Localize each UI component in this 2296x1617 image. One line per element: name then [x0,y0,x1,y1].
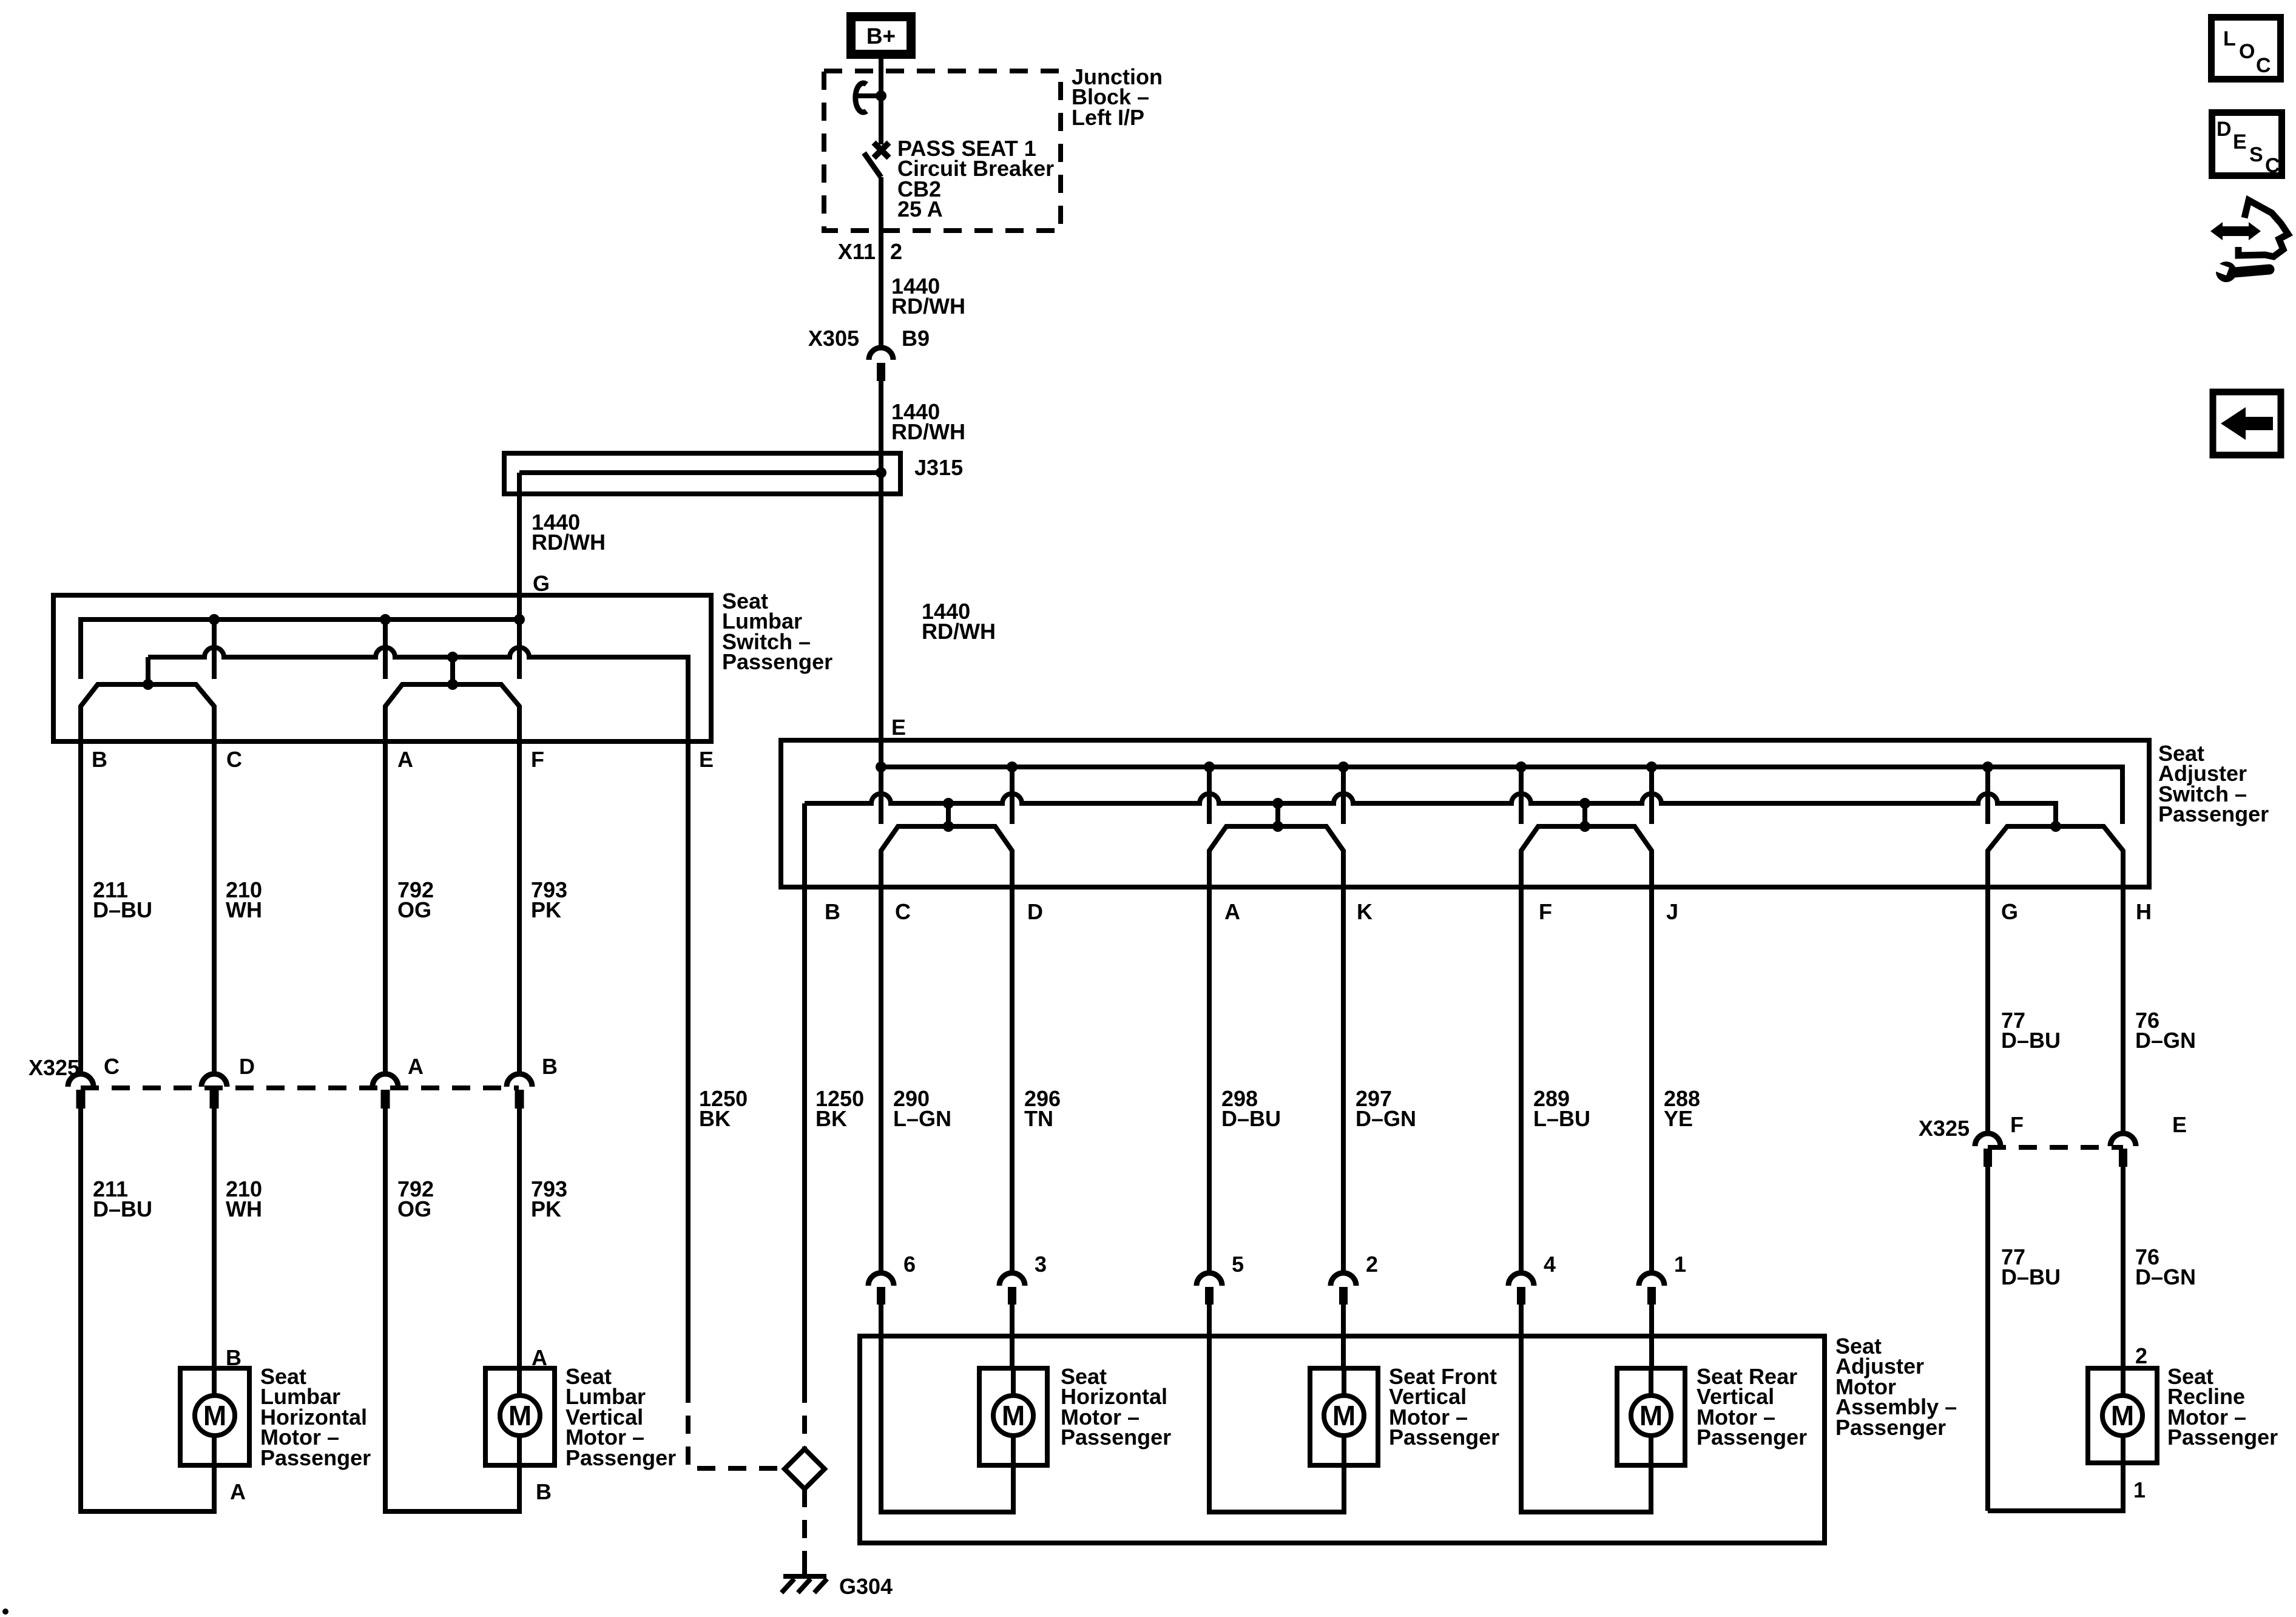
battery feed B+ terminal [851,17,911,55]
svg-text:WH: WH [226,897,262,922]
connector pin 1 male [1647,1287,1656,1305]
lumbar bridge 2 tap [450,657,455,684]
lumbar feed stub to G wire [517,598,522,679]
breaker switch blade [864,153,881,177]
recline motor M circle [2102,1396,2142,1436]
wire pin 3 into motor assembly [1010,1305,1015,1370]
svg-text:A: A [1224,899,1240,924]
svg-text:M: M [1002,1400,1025,1431]
wire lumbar horizontal motor loop [81,1465,214,1511]
svg-text:25 A: 25 A [897,197,943,221]
wire seat horizontal motor loop [881,1370,1013,1512]
wire pin 4 into motor assembly [1519,1305,1524,1370]
svg-text:Passenger: Passenger [2158,802,2269,826]
connector X325 pin B female [507,1074,532,1087]
svg-text:S: S [2249,143,2263,166]
wire J315 to seat lumbar switch pin G (1440 RD/WH) [517,473,522,598]
svg-text:Passenger: Passenger [1697,1425,1807,1450]
connector pin 4 female [1508,1273,1534,1286]
adjuster switch bridge C-D [881,826,1012,858]
svg-text:E: E [2172,1112,2187,1137]
svg-text:YE: YE [1664,1106,1693,1131]
junction dot common/bridge3 tap [1579,798,1590,809]
svg-text:OG: OG [397,897,431,922]
svg-text:2: 2 [1366,1252,1378,1277]
svg-text:B+: B+ [866,24,896,49]
svg-text:L–BU: L–BU [1533,1106,1590,1131]
wire X305 to splice J315 (1440 RD/WH) [879,380,883,743]
splice pack J315 bus [519,470,885,475]
svg-text:G304: G304 [839,1574,893,1599]
wire through recline motor [2121,1368,2125,1463]
wire adjuster B ground (1250 BK) [802,803,807,1385]
svg-text:B9: B9 [902,326,930,351]
wire adjuster J to motor assembly pin 1 (288 YE) [1649,851,1654,1273]
svg-text:L–GN: L–GN [893,1106,951,1131]
seat front vertical motor outline [1310,1368,1378,1465]
wire lumbar B to X325 C (211 D-BU) [78,706,83,1075]
svg-text:RD/WH: RD/WH [922,619,996,644]
connector X325 pin A female [373,1074,398,1087]
svg-text:BK: BK [815,1106,847,1131]
svg-text:B: B [536,1479,552,1504]
svg-text:F: F [531,747,544,772]
wire seat front vertical motor loop [1209,1370,1344,1512]
circuit breaker CB2 hook [856,83,866,112]
lumbar contact stub A [383,619,388,679]
ground symbol G304 [783,1574,826,1579]
svg-text:D–BU: D–BU [1221,1106,1281,1131]
connector X325 pin B male [515,1090,524,1109]
svg-text:M: M [203,1400,226,1431]
wire adjuster H to X325 E (76 D-GN) [2121,851,2125,1135]
junction dot bridge2 tap bottom [1272,821,1283,832]
connector pin 5 female [1197,1273,1222,1286]
LOC navigation box [2212,18,2281,79]
wire pin 2 into motor assembly [1341,1305,1346,1370]
svg-text:X11: X11 [838,239,876,264]
svg-text:B: B [542,1054,558,1079]
junction dot feed/A stub [380,614,391,625]
connector X325 pin F female [1975,1133,2001,1146]
DESC navigation box [2212,113,2282,176]
svg-text:D–BU: D–BU [93,1197,152,1221]
svg-text:TN: TN [1024,1106,1053,1131]
lumbar common bus with hops to pin E [148,647,688,743]
seat horizontal motor outline [979,1368,1047,1465]
svg-text:C: C [895,899,911,924]
svg-text:J315: J315 [914,455,963,480]
svg-text:A: A [408,1054,424,1079]
wire through seat horizontal motor [1011,1368,1016,1465]
connector X325 dashed line (left row) [81,1085,519,1090]
seat adjuster switch outline [781,740,2149,887]
connector X325 pin E female [2110,1133,2136,1146]
svg-text:C: C [2256,54,2271,77]
wire adjuster C to motor assembly pin 6 (290 L–GN) [879,851,883,1273]
wire X325 C to lumbar horizontal motor A [78,1109,83,1514]
junction dot at breaker arm [876,90,886,101]
connector pin 6 male [877,1287,885,1305]
lumbar switch bridge A-F [385,684,519,714]
adjuster switch bridge F-J [1521,826,1652,858]
svg-text:D–GN: D–GN [1356,1106,1416,1131]
svg-text:Passenger: Passenger [1835,1415,1946,1440]
adjuster bridge1 tap [946,803,951,826]
svg-text:M: M [2111,1400,2134,1431]
wire lumbar A to X325 A (792 OG) [383,706,388,1075]
wire lumbar ground dashed to splice [688,1385,785,1468]
wire adjuster D to motor assembly pin 3 (296 TN) [1010,851,1015,1273]
svg-text:A: A [230,1479,246,1504]
junction dot feed/J stub [1646,761,1657,772]
svg-text:Passenger: Passenger [566,1445,676,1470]
svg-text:Passenger: Passenger [260,1445,371,1470]
svg-text:Passenger: Passenger [1389,1425,1499,1450]
svg-text:G: G [533,571,550,596]
svg-text:RD/WH: RD/WH [532,530,606,555]
motor M2 circle [500,1396,540,1436]
seat lumbar vertical motor outline [485,1368,555,1465]
dashed wire splice to ground G304 [802,1489,807,1565]
wire pin 5 into motor assembly [1207,1305,1212,1370]
svg-text:B: B [825,899,840,924]
junction dot feed/C stub [209,614,220,625]
junction dot feed/A stub [1204,761,1215,772]
connector X325 pin A male [381,1090,390,1109]
seat lumbar switch outline [53,595,711,741]
connector pin 4 male [1517,1287,1525,1305]
wire lumbar vertical motor loop [385,1465,519,1511]
svg-text:M: M [1639,1400,1663,1431]
junction dot feed/G stub [1982,761,1993,772]
wire through seat front vertical motor [1342,1368,1346,1465]
svg-text:1: 1 [1674,1252,1686,1277]
svg-text:B: B [92,747,107,772]
seat adjuster motor assembly outline [860,1336,1825,1543]
wire CB2 to X305 (1440 RD/WH) [879,177,883,347]
svg-text:2: 2 [890,239,902,264]
wire X325 B to lumbar vertical motor A [517,1109,522,1368]
wire adjuster K to motor assembly pin 2 (297 D–GN) [1341,851,1346,1273]
svg-text:M: M [1332,1400,1356,1431]
svg-text:WH: WH [226,1197,262,1221]
adjuster contact stub J [1649,767,1654,824]
svg-text:1: 1 [2133,1477,2146,1502]
wire X325 F to recline motor 1 (77 D-BU) [1985,1167,1990,1511]
seat front vertical motor M circle [1324,1396,1364,1436]
wire pin 6 into motor assembly [879,1305,883,1370]
breaker contact X mark [874,143,889,158]
seat lumbar horizontal motor outline [180,1368,249,1465]
adjuster bridge3 tap [1582,803,1587,826]
lumbar bridge 1 tap [146,657,150,684]
svg-text:J: J [1666,899,1678,924]
svg-text:RD/WH: RD/WH [891,294,965,319]
connector pin 1 female [1639,1273,1664,1286]
junction dot common/bridge2 tap [1272,798,1283,809]
junction dot common bus at bridge2 tap [447,652,458,663]
wire seat rear vertical motor loop [1521,1370,1651,1512]
connector X325 pin F male [1984,1149,1992,1167]
junction dot bridge2 tap [447,679,458,690]
svg-text:C: C [2265,154,2280,177]
svg-text:D–GN: D–GN [2135,1028,2196,1053]
svg-text:E: E [699,747,714,772]
junction dot bridge1 tap [143,679,154,690]
wire lumbar F to X325 B (793 PK) [517,706,522,1075]
wire lumbar E ground (1250 BK) [686,657,690,1385]
svg-text:X305: X305 [808,326,859,351]
adjustable component icon (arrow/wrench) [2210,200,2288,282]
svg-text:F: F [1539,899,1552,924]
svg-text:5: 5 [1232,1252,1244,1277]
seat rear vertical motor M circle [1631,1396,1671,1436]
seat horizontal motor M circle [993,1396,1033,1436]
lumbar switch bridge B-C [81,684,214,714]
connector pin 2 female [1331,1273,1356,1286]
wire X325 D to lumbar horizontal motor B [212,1109,217,1368]
adjuster feed bus (from pin E) [881,767,2122,824]
junction dot feed/D stub [1007,761,1018,772]
svg-text:D: D [2217,118,2232,141]
wire adjuster A to motor assembly pin 5 (298 D–BU) [1207,851,1212,1273]
adjuster switch bridge G-H [1988,826,2123,858]
svg-text:D: D [239,1054,255,1079]
svg-text:PK: PK [531,1197,561,1221]
junction dot J315 bus to main feed [876,467,886,478]
splice pack J315 outline [504,453,900,494]
svg-text:A: A [397,747,413,772]
adjuster contact stub F [1519,767,1524,824]
svg-text:E: E [891,715,906,740]
wire pin 1 into motor assembly [1649,1305,1654,1370]
svg-text:Passenger: Passenger [2167,1425,2278,1450]
wire breaker arm to contact [879,96,883,144]
svg-text:D–BU: D–BU [93,897,152,922]
junction dot feed/F stub [1516,761,1527,772]
connector X325 pin D female [201,1074,227,1087]
svg-text:OG: OG [397,1197,431,1221]
connector X325 pin E male [2119,1149,2127,1167]
svg-text:D–BU: D–BU [2001,1264,2061,1289]
wire from B+ into junction block [879,55,883,96]
junction dot feed/G entry [514,614,525,625]
svg-text:C: C [226,747,242,772]
junction block (dashed outline) [824,71,1061,231]
junction dot feed/K stub [1338,761,1349,772]
svg-text:BK: BK [699,1106,731,1131]
svg-text:PK: PK [531,897,561,922]
junction dot bridge3 tap bottom [1579,821,1590,832]
svg-text:Passenger: Passenger [722,649,832,674]
svg-text:3: 3 [1035,1252,1047,1277]
adjuster contact stub D [1010,767,1015,824]
svg-text:C: C [104,1054,120,1079]
svg-text:F: F [2010,1112,2024,1137]
seat recline motor outline [2088,1368,2157,1463]
junction dot feed/C stub [876,761,886,772]
page artifact dot [2,1609,8,1615]
junction dot bridge1 tap bottom [943,821,954,832]
svg-text:L: L [2223,27,2236,50]
wire through lumbar vertical motor [517,1368,522,1465]
svg-text:Passenger: Passenger [1061,1425,1171,1450]
lumbar contact stub C [212,619,217,679]
svg-text:RD/WH: RD/WH [891,419,965,444]
wire lumbar C to X325 D (210 WH) [212,706,217,1075]
wire adjuster B dashed to splice [802,1385,807,1450]
connector pin 3 female [999,1273,1025,1286]
motor M1 circle [195,1396,235,1436]
svg-text:2: 2 [2135,1343,2147,1368]
circuit breaker CB2 arm [857,93,881,98]
connector pin 3 male [1008,1287,1016,1305]
connector X305 female terminal [869,348,893,360]
connector X325 pin D male [210,1090,219,1109]
svg-text:4: 4 [1544,1252,1556,1277]
svg-text:O: O [2239,40,2255,63]
lumbar switch feed bus (from pin G) [81,619,519,679]
adjuster bridge2 tap [1275,803,1280,826]
svg-text:K: K [1357,899,1373,924]
svg-text:M: M [508,1400,532,1431]
wire recline motor loop [1988,1463,2123,1511]
wire through lumbar horizontal motor [212,1368,217,1465]
svg-text:H: H [2136,899,2152,924]
adjuster feed stub C [879,743,883,824]
connector pin 6 female [868,1273,894,1286]
wire X325 E to recline motor 2 (76 D-GN) [2121,1167,2125,1368]
adjuster contact stub G [1985,767,1990,824]
wire X325 A to lumbar vertical motor B [383,1109,388,1514]
connector pin 2 male [1339,1287,1348,1305]
wire adjuster G to X325 F (77 D-BU) [1985,851,1990,1135]
wire through seat rear vertical motor [1649,1368,1653,1465]
svg-text:E: E [2233,130,2247,154]
connector X305 male terminal [877,363,885,381]
junction dot common/bridge1 tap [943,798,954,809]
svg-text:G: G [2001,899,2018,924]
connector pin 5 male [1205,1287,1214,1305]
seat rear vertical motor outline [1617,1368,1685,1465]
svg-text:D–BU: D–BU [2001,1028,2061,1053]
wire adjuster F to motor assembly pin 4 (289 L–BU) [1519,851,1524,1273]
adjuster common bus with hops (pin B) [805,794,2056,826]
connector X325 right dashed line [1988,1145,2123,1150]
connector X325 pin C female [68,1074,93,1087]
svg-text:X325: X325 [1919,1116,1970,1141]
svg-text:D: D [1027,899,1043,924]
adjuster contact stub A [1207,767,1212,824]
connector X325 pin C male [76,1090,86,1109]
adjuster contact stub K [1341,767,1346,824]
svg-text:Left I/P: Left I/P [1072,105,1144,130]
splice diamond (1250 BK) [785,1449,825,1489]
svg-text:D–GN: D–GN [2135,1264,2196,1289]
svg-text:6: 6 [903,1252,916,1277]
adjuster switch bridge A-K [1209,826,1343,858]
back arrow navigation box [2213,392,2281,455]
junction dot bridge4 tap [2050,821,2061,832]
